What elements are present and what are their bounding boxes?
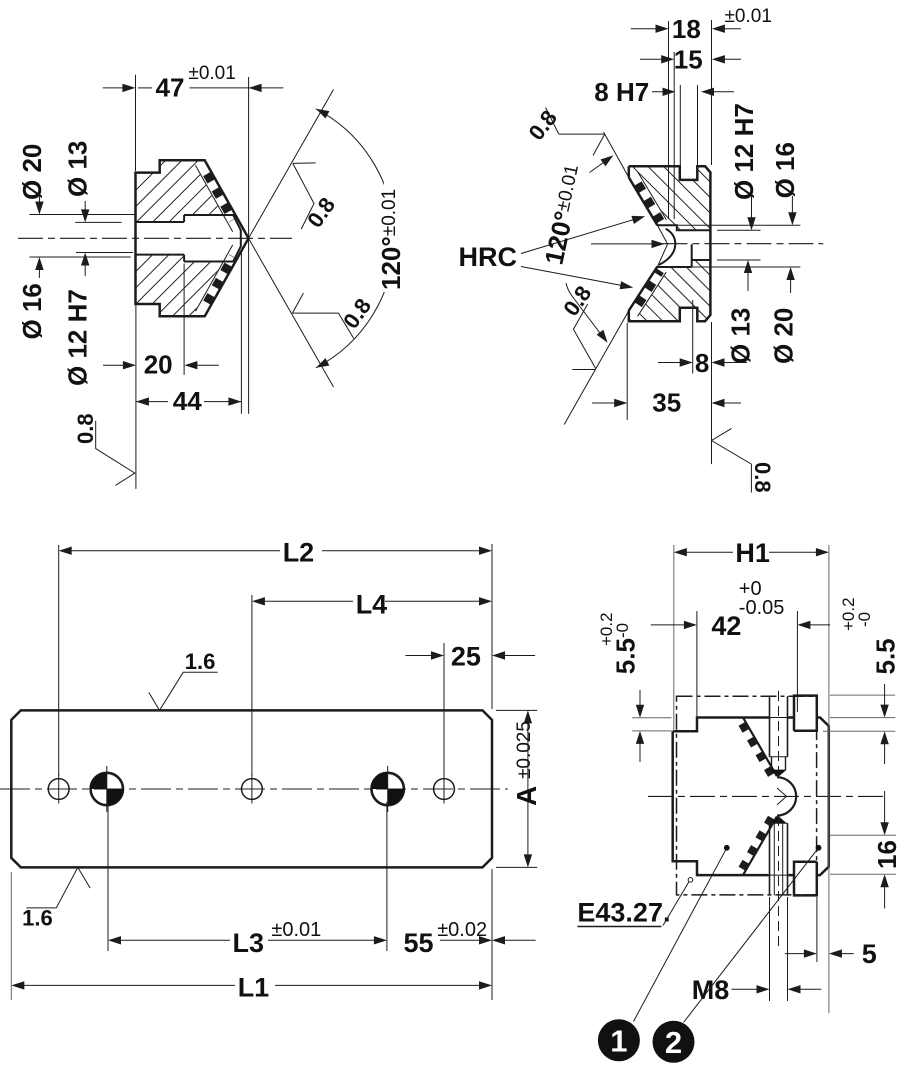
svg-text:H1: H1 — [735, 538, 770, 568]
svg-text:Ø 13: Ø 13 — [63, 141, 93, 197]
svg-text:16: 16 — [872, 840, 902, 869]
view 1 male pin outline — [136, 160, 249, 316]
dim 42 extension line right — [796, 611, 798, 712]
dim L3 extension line left (hole 2) — [107, 802, 109, 951]
dim 5.5 right dimension line and arrows — [884, 684, 886, 715]
svg-text:15: 15 — [674, 45, 703, 75]
label Ø20 extension line — [30, 214, 136, 216]
dim 20 dimension line and arrows — [103, 364, 133, 366]
view 4 M8 thread channel lower — [769, 823, 771, 895]
dim A extension lines — [496, 709, 537, 711]
label Ø16 arrow — [38, 260, 40, 278]
svg-text:L1: L1 — [238, 973, 270, 1003]
svg-text:Ø 16: Ø 16 — [17, 283, 47, 339]
label Ø12 H7 extension line right — [717, 229, 760, 231]
label E43.27 underline — [577, 926, 661, 928]
view 4 bore channel upper — [769, 696, 771, 757]
view 2 serration band upper V-face (white strip) — [629, 172, 667, 226]
surface finish 0.8 bottom-right of view 2 — [712, 428, 752, 492]
view 4 small circle for E43.27 leader — [688, 878, 693, 883]
svg-text:Ø 20: Ø 20 — [17, 144, 47, 200]
svg-text:44: 44 — [173, 386, 202, 416]
view 2 serration band lower V-face (white strip) — [629, 267, 667, 317]
svg-text:L4: L4 — [356, 590, 388, 620]
dim 44 extension line left (lower part of 47 ext) — [135, 304, 137, 489]
view 1 counterbore Ø13 with tip opening — [184, 215, 241, 262]
view 4 half-circle relief — [777, 777, 796, 815]
dim H1 extension line left — [673, 545, 675, 731]
view 1 serration inner line lower — [196, 245, 233, 311]
dim 35 dimension line and arrows — [592, 402, 624, 404]
view 4 centre axis horizontal — [648, 795, 888, 797]
right face extension line up — [711, 20, 713, 165]
dim M8 extension lines — [769, 897, 771, 1001]
label Ø16 extension line — [30, 256, 131, 258]
svg-text:-0: -0 — [613, 623, 632, 638]
view 4: phantom outline of mating plate — [677, 696, 817, 895]
slot 8H7 extension line left — [679, 85, 681, 166]
label HRC leader to lower V-face — [521, 267, 626, 287]
view 4 drill tip upper — [770, 770, 786, 777]
surface finish 1.6 on plate top face — [149, 672, 218, 710]
dim L3 dimension line and arrows — [111, 939, 230, 941]
angle dim 120 (view 2) leader arrow to upper ray — [590, 158, 611, 173]
svg-text:L2: L2 — [283, 538, 315, 568]
label Ø16 extension line right — [677, 224, 801, 226]
dim 8 (depth) extension line — [692, 300, 694, 373]
view 1 serration band upper (white strip) — [195, 160, 248, 243]
dim 18 extension line (into part) — [668, 21, 670, 219]
view 3 hole 3 — [242, 779, 263, 800]
dim 8 (depth) dimension line and arrows — [658, 362, 690, 364]
svg-text:±0.01: ±0.01 — [188, 63, 235, 84]
view 3: clamping plate outline — [11, 710, 492, 867]
dim L2 extension line left (hole 1) — [58, 545, 60, 776]
dim M8 dimension line and arrows — [732, 988, 767, 990]
dim 5.5 left extension lines — [632, 717, 672, 719]
dim L2 dimension line and arrows — [62, 550, 280, 552]
view 1: male centring pin section - hatching upper — [136, 160, 236, 222]
view 1 serration teeth lower cone face — [207, 256, 233, 302]
svg-text:Ø 12 H7: Ø 12 H7 — [63, 289, 93, 386]
view 4 M8 channel centreline — [778, 816, 780, 946]
slot 8H7 extension line right — [697, 85, 699, 166]
surface finish 1.6 on plate bottom face — [27, 867, 91, 908]
view 2 female bush outline — [629, 166, 711, 321]
view 4 leader dot part 2 — [816, 845, 822, 851]
view 4 bore channel upper centreline — [778, 691, 780, 776]
angle dim 120 (view 2) leader arrow to lower ray — [566, 283, 605, 339]
view 2 serration teeth lower V-face — [638, 271, 660, 305]
svg-text:8: 8 — [695, 348, 709, 378]
svg-text:25: 25 — [451, 642, 481, 672]
dim 25 dimension line and arrows — [406, 655, 442, 657]
label Ø12 H7 arrow — [84, 256, 86, 276]
svg-text:±0.01: ±0.01 — [725, 6, 772, 27]
angle dim 120 arc arrowheads — [316, 109, 330, 119]
svg-text:2: 2 — [665, 1025, 682, 1060]
view 4 thin edge across bore channel — [770, 717, 787, 719]
view 1 serration inner line upper — [196, 165, 233, 231]
dim 5 dimension line and arrows — [785, 953, 814, 955]
dim 25 extension line (hole 5) — [443, 643, 445, 776]
dim A dimension line and arrows — [527, 712, 529, 866]
dim 16 dimension line and arrows — [884, 791, 886, 833]
view 1 bore Ø12 H7 — [136, 222, 185, 255]
dim H1/right long extension line — [828, 545, 830, 1013]
dim 20 extension line — [183, 264, 185, 375]
dim 15 extension line (into part) — [673, 52, 675, 219]
dim 5.5 left dimension line and arrows — [639, 690, 641, 715]
dim 18 dimension line and arrows — [631, 28, 666, 30]
svg-text:-0: -0 — [855, 612, 874, 627]
common right extension line below plate — [491, 869, 493, 1000]
view 4 serrated V-face upper — [743, 718, 777, 777]
view 2 lower V-face extension ray — [564, 311, 629, 425]
view 4 drill tip lower — [770, 816, 786, 823]
dim 44 dimension line and arrows — [136, 401, 242, 403]
svg-text:5: 5 — [862, 939, 877, 969]
svg-text:±0.01: ±0.01 — [271, 919, 321, 941]
view 2 V vertex thin lines — [657, 225, 667, 244]
svg-text:E43.27.: E43.27. — [577, 898, 670, 928]
view 1 serration band lower (white strip) — [195, 233, 248, 316]
dim 42 dimension line and arrows — [651, 624, 694, 626]
dim H1 dimension line and arrows — [676, 551, 733, 553]
dim 16 extension lines — [830, 834, 896, 836]
label Ø13 arrow — [84, 201, 86, 220]
dim 47 dimension line — [103, 87, 133, 89]
dim 35 extension line right — [711, 322, 713, 464]
view 1 cone construction ray upper-right — [249, 90, 334, 239]
dim 47/44 extension line right — [248, 77, 250, 414]
svg-text:Ø 20: Ø 20 — [769, 308, 799, 364]
view 4 leader dot part 1 — [724, 845, 730, 851]
svg-text:42: 42 — [711, 611, 741, 641]
surface finish 0.8 on lower cone ray — [292, 293, 353, 338]
view 2 spherical relief arc — [659, 229, 675, 265]
svg-text:0.8: 0.8 — [750, 462, 775, 493]
common right extension line above plate — [491, 544, 493, 709]
view 2 upper V-face extension ray — [604, 132, 629, 177]
svg-text:Ø 13: Ø 13 — [726, 308, 756, 364]
label Ø20 extension line right — [692, 266, 801, 268]
angle dim 120 text background — [384, 180, 416, 292]
dim 35 extension line left — [626, 323, 628, 420]
dim 55 dimension line and arrows — [440, 939, 489, 941]
surface finish 0.8 at left face bottom — [96, 421, 135, 486]
dim L4 extension line left (hole 3) — [251, 595, 253, 776]
view 4 serration teeth lower — [742, 814, 773, 868]
label Ø12 H7 (view 2) arrow and text — [751, 196, 753, 228]
view 3 hole 1 — [48, 779, 69, 800]
view 1 cone construction ray lower-right — [249, 238, 334, 387]
surface finish 0.8 top-left of view 2 — [546, 108, 605, 156]
angle dim 120 (view 2) leader arrow to vertex — [591, 243, 653, 245]
svg-text:20: 20 — [144, 350, 173, 380]
svg-text:5.5: 5.5 — [871, 638, 901, 674]
svg-text:1.6: 1.6 — [22, 906, 53, 931]
svg-text:Ø 12 H7: Ø 12 H7 — [729, 103, 759, 200]
svg-text:18: 18 — [672, 14, 701, 44]
view 2 hatching lower — [629, 260, 711, 321]
svg-text:HRC: HRC — [459, 242, 518, 272]
angle dim 120 arc — [316, 109, 395, 368]
label Ø12 H7 extension line — [76, 252, 133, 254]
label Ø16 (view 2) arrow and text — [791, 196, 793, 223]
view 3 hole 5 — [434, 779, 455, 800]
dim 47 extension line left — [135, 75, 137, 171]
svg-text:M8: M8 — [692, 975, 730, 1005]
dim 5.5 right extension lines — [830, 694, 895, 696]
svg-text:1.6: 1.6 — [185, 649, 216, 674]
view 3 datum hole 4 (quadrant symbol) — [372, 773, 404, 805]
view 3 centre axis — [0, 788, 508, 790]
surface finish 0.8 on upper cone ray — [293, 163, 316, 229]
view 2 pocket ledge and bore Ø12 — [657, 225, 710, 267]
view 2 centre axis — [663, 243, 824, 245]
svg-text:L3: L3 — [233, 928, 265, 958]
label Ø20 arrow — [38, 196, 40, 212]
view 1 centre axis — [18, 237, 292, 239]
label Ø13 (view 2) arrow and text — [747, 263, 749, 292]
label HRC leader to upper V-face — [521, 218, 638, 253]
view 1 hatching lower — [136, 255, 236, 317]
svg-text:55: 55 — [404, 928, 434, 958]
view 1 short rays left of apex — [225, 196, 249, 239]
dim L1 dimension line and arrows — [14, 984, 235, 986]
svg-text:Ø 16: Ø 16 — [770, 142, 800, 198]
surface finish 0.8 lower-left of view 2 — [572, 304, 595, 370]
dim 42 extension line left — [696, 611, 698, 717]
dim 5 extension line (phantom edge) — [816, 897, 818, 962]
svg-text:±0.02: ±0.02 — [437, 919, 487, 941]
view 4 cone tip projection triangle — [777, 788, 787, 805]
view 4 serration teeth upper — [742, 724, 773, 778]
dim L4 dimension line and arrows — [255, 600, 353, 602]
balloon 2 leader line — [684, 848, 819, 1023]
view 4 serrated V-face lower — [743, 816, 777, 875]
svg-text:-0.05: -0.05 — [739, 597, 785, 619]
label Ø20 (view 2) arrow and text — [790, 270, 792, 294]
view 2 serration teeth upper V-face — [638, 184, 661, 222]
view 4 lower plate outline — [673, 696, 829, 896]
svg-text:1: 1 — [610, 1024, 627, 1059]
dim L3/55 extension line (hole 4) — [386, 802, 388, 951]
dim 44 extension line right — [240, 252, 242, 414]
dim 8 H7 dimension line and arrows — [652, 91, 673, 93]
dim 15 dimension line and arrows — [640, 58, 672, 60]
svg-text:47: 47 — [156, 73, 185, 103]
view 2 serration inner line lower — [638, 272, 667, 316]
label Ø13 extension line — [75, 221, 121, 223]
svg-text:0.8: 0.8 — [73, 413, 98, 444]
svg-text:35: 35 — [652, 388, 681, 418]
label Ø13 extension line right — [717, 259, 760, 261]
balloon 1 leader line — [634, 848, 727, 1022]
balloon 1 — [598, 1019, 640, 1061]
view 2 serration inner line upper — [638, 172, 667, 220]
label E43.27 leader line — [663, 882, 689, 926]
view 2: female bush hatching upper — [629, 166, 711, 230]
view 1 serration teeth upper cone face — [207, 174, 233, 220]
svg-text:8 H7: 8 H7 — [594, 77, 649, 107]
balloon 2 — [653, 1021, 695, 1063]
dim L1 extension line left — [10, 872, 12, 1000]
view 3 datum hole 2 (quadrant symbol) — [91, 773, 123, 805]
dim 44 text — [168, 390, 204, 412]
